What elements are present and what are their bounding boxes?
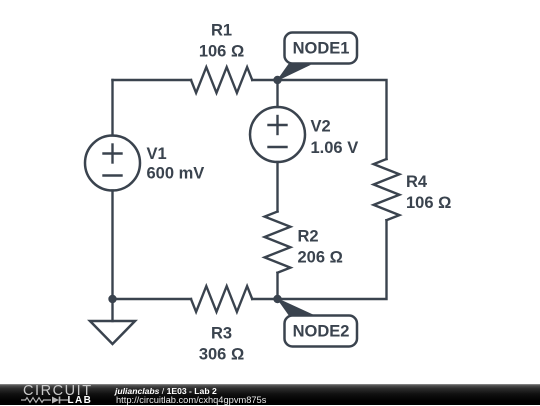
svg-text:NODE2: NODE2 — [293, 322, 350, 340]
wire NODE2 to R3 — [252, 298, 277, 300]
junction ground node — [108, 295, 116, 303]
resistor R4 — [374, 159, 400, 220]
svg-text:V2: V2 — [311, 118, 331, 136]
junction node NODE2 — [273, 295, 281, 303]
svg-text:R4: R4 — [406, 173, 428, 191]
node NODE1 flag — [285, 33, 358, 64]
svg-text:306 Ω: 306 Ω — [199, 346, 244, 364]
svg-text:106 Ω: 106 Ω — [406, 194, 451, 212]
ground — [90, 321, 135, 344]
wire R4 to bottom-right corner to NODE2 — [278, 220, 387, 299]
svg-text:NODE1: NODE1 — [293, 39, 350, 57]
node NODE1 flag tail — [276, 63, 311, 82]
node NODE2 flag tail — [276, 298, 313, 317]
footer text — [115, 387, 266, 406]
svg-text:R1: R1 — [211, 22, 232, 40]
svg-text:R2: R2 — [298, 228, 319, 246]
resistor R1 — [191, 67, 252, 93]
wire NODE1 to top-right corner down to R4 — [278, 80, 387, 159]
voltage source V1 — [85, 136, 140, 191]
svg-text:R3: R3 — [211, 325, 232, 343]
svg-text:V1: V1 — [147, 145, 167, 163]
node NODE2 flag — [285, 316, 358, 347]
wire NODE1 to V2 — [276, 80, 278, 107]
wire left rail top to V1 — [111, 80, 113, 136]
resistor R3 — [191, 286, 252, 312]
wire ground stub — [111, 299, 113, 321]
CircuitLab logo — [23, 385, 103, 405]
wire R3 to ground junction — [113, 298, 192, 300]
junction node NODE1 — [273, 76, 281, 84]
svg-text:600 mV: 600 mV — [147, 165, 205, 183]
wire V1 bottom to ground junction — [111, 191, 113, 300]
svg-text:1.06 V: 1.06 V — [311, 139, 359, 157]
resistor R2 — [265, 212, 291, 273]
svg-text:106 Ω: 106 Ω — [199, 43, 244, 61]
footer bar — [0, 384, 540, 405]
voltage source V2 — [250, 107, 305, 162]
wire R2 to NODE2 — [276, 273, 278, 299]
wire R1 to node NODE1 — [252, 79, 277, 81]
wire top-left horizontal — [113, 79, 192, 81]
svg-text:206 Ω: 206 Ω — [298, 249, 343, 267]
wire V2 to R2 — [276, 162, 278, 212]
